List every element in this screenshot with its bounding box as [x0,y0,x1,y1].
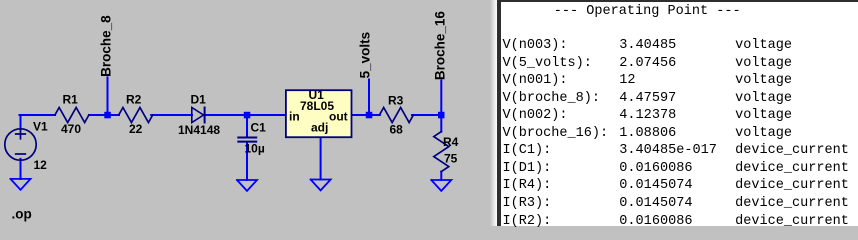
resistor R1 zigzag [55,108,89,123]
log row I(R3) [501,195,858,197]
wire V1 bottom to ground [20,159,22,179]
wire U1 adj to ground [320,137,322,179]
log title [554,4,741,19]
capacitor C1 plates [238,138,256,142]
wire R2 to D1 anode [151,114,192,116]
svg-text:.op: .op [12,207,32,222]
svg-text:12: 12 [34,158,48,172]
ground at V1 [11,179,31,190]
svg-text:68: 68 [390,123,404,137]
regulator U1 box [286,90,352,137]
separator light stripe [490,0,497,226]
svg-text:C1: C1 [251,121,267,135]
resistor R3 zigzag [379,108,413,123]
resistor R2 zigzag [119,108,153,123]
svg-text:R1: R1 [63,93,79,107]
svg-text:10µ: 10µ [245,142,265,156]
log row V(broche_8) [501,90,858,92]
voltage source V1 circle [5,129,36,160]
log row I(R2) [501,213,858,215]
separator dark border [497,0,501,226]
schematic pane [0,0,497,226]
operating point log window [501,0,858,226]
wire R3 to node broche_16 [412,114,441,116]
svg-text:R2: R2 [126,93,142,107]
diode D1 triangle [192,108,204,123]
diode D1 cathode bar [204,108,206,123]
wire main horizontal V1 to R1 [20,114,56,116]
wire node 5_volts vertical [368,80,370,116]
log row V(n002) [501,107,858,109]
svg-text:Broche_8: Broche_8 [99,15,114,77]
wire U1 output to R3 [352,114,380,116]
svg-text:V1: V1 [33,120,48,134]
svg-text:470: 470 [61,122,81,136]
svg-text:R3: R3 [388,94,404,108]
node junction C1 [244,112,251,119]
log row V(n001) [501,72,858,74]
ground at C1 [237,180,257,191]
V1 minus sign [16,153,26,155]
svg-text:5_volts: 5_volts [358,32,373,79]
wire R4 top lead [440,115,442,132]
V1 plus sign [16,129,26,139]
log row I(C1) [501,142,858,144]
wire V1 top lead [20,115,22,129]
wire node Broche_16 vertical [440,81,442,116]
ground at R4 [431,180,451,191]
log row V(n003) [501,37,858,39]
svg-text:1N4148: 1N4148 [178,123,220,137]
log row V(5_volts) [501,55,858,57]
log row I(D1) [501,160,858,162]
node junction Broche_16 R4 [438,112,445,119]
svg-text:22: 22 [129,122,143,136]
svg-text:R4: R4 [443,135,459,149]
node junction 5_volts [366,112,373,119]
resistor R4 zigzag vertical [434,132,449,172]
wire D1 cathode to U1 input [205,114,286,116]
svg-text:in: in [289,110,300,124]
svg-text:out: out [329,110,348,124]
svg-text:adj: adj [311,121,328,135]
svg-text:75: 75 [444,152,458,166]
node junction R1-R2 Broche_8 [104,112,111,119]
wire R4 bottom to ground [440,172,442,181]
wire R1 to R2 through node [89,114,119,116]
log row V(broche_16) [501,125,858,127]
svg-text:Broche_16: Broche_16 [433,11,448,81]
wire node Broche_8 vertical [107,77,109,115]
wire C1 bottom to ground [246,142,248,180]
svg-text:D1: D1 [191,93,207,107]
ground at U1 adj [311,180,331,191]
log row I(R4) [501,177,858,179]
wire C1 top lead [246,115,248,137]
